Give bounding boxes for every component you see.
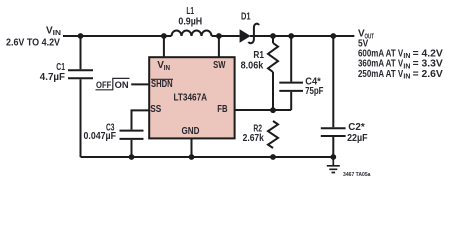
wire GND pin <box>191 138 193 157</box>
svg-text:IN: IN <box>403 61 410 70</box>
ground <box>327 157 340 173</box>
wire SW pin <box>218 36 220 58</box>
svg-text:600mA AT V: 600mA AT V <box>358 48 403 59</box>
wire C1 branch <box>80 36 82 157</box>
wire C4 branch <box>290 36 292 110</box>
svg-text:FB: FB <box>217 104 227 115</box>
inductor L1 <box>172 31 212 36</box>
svg-text:250mA AT V: 250mA AT V <box>358 69 403 80</box>
svg-text:SS: SS <box>150 104 161 115</box>
capacitor C4 <box>279 83 303 91</box>
pin SHDN overline <box>151 78 173 80</box>
node C4 top <box>288 33 294 39</box>
svg-text:0.047µF: 0.047µF <box>84 131 117 142</box>
wire bottom rail <box>81 156 336 158</box>
wire R1 branch <box>272 36 274 110</box>
svg-text:2.6V TO 4.2V: 2.6V TO 4.2V <box>6 38 60 49</box>
svg-text:0.9µH: 0.9µH <box>178 17 202 28</box>
diode D1 cathode bar <box>248 24 259 43</box>
svg-text:75pF: 75pF <box>305 86 323 97</box>
svg-text:IN: IN <box>403 51 410 60</box>
svg-text:2.67k: 2.67k <box>243 133 265 144</box>
svg-text:= 2.6V: = 2.6V <box>413 69 444 80</box>
svg-text:3467 TA05a: 3467 TA05a <box>343 172 371 178</box>
node C2 top <box>330 33 336 39</box>
svg-text:8.06k: 8.06k <box>241 61 264 72</box>
svg-text:C1: C1 <box>56 62 65 73</box>
svg-text:= 4.2V: = 4.2V <box>413 48 444 59</box>
node C3 bottom <box>129 154 135 160</box>
svg-text:SHDN: SHDN <box>151 79 173 90</box>
node FB junction <box>270 107 276 113</box>
svg-text:SW: SW <box>213 60 226 71</box>
svg-text:D1: D1 <box>241 11 251 22</box>
wire top rail left <box>63 35 172 37</box>
capacitor C1 <box>68 70 93 78</box>
svg-text:C2*: C2* <box>348 122 364 133</box>
diode D1 triangle <box>240 29 251 42</box>
svg-text:4.7µF: 4.7µF <box>40 72 65 83</box>
node GND bottom <box>189 154 195 160</box>
svg-text:R1: R1 <box>253 50 264 61</box>
node D1/R1 <box>270 33 276 39</box>
node SW pin <box>216 33 222 39</box>
svg-text:OFF: OFF <box>96 80 112 90</box>
OFF/ON step symbol <box>96 78 130 89</box>
wire top rail right <box>250 35 354 37</box>
node VIN pin <box>161 33 167 39</box>
wire FB branch <box>235 109 292 111</box>
resistor R1 <box>268 43 278 72</box>
wire SS branch <box>132 110 151 157</box>
node R2 bottom <box>270 154 276 160</box>
resistor R2 <box>268 121 278 148</box>
svg-text:IN: IN <box>403 72 410 81</box>
wire C2 branch <box>332 36 334 157</box>
svg-text:IN: IN <box>53 28 61 37</box>
svg-text:L1: L1 <box>186 6 194 17</box>
svg-text:IN: IN <box>164 63 170 72</box>
capacitor C3 <box>120 131 144 139</box>
wire top rail mid <box>212 35 240 37</box>
svg-text:22µF: 22µF <box>347 133 368 144</box>
wire SHDN <box>131 83 150 85</box>
node C1 top <box>78 33 84 39</box>
node C2 bottom <box>330 154 336 160</box>
svg-text:LT3467A: LT3467A <box>174 92 208 103</box>
svg-text:ON: ON <box>115 80 129 90</box>
svg-text:GND: GND <box>182 126 200 137</box>
wire VIN pin <box>163 36 165 58</box>
IC LT3467A body <box>149 57 234 138</box>
capacitor C2 <box>321 128 346 136</box>
